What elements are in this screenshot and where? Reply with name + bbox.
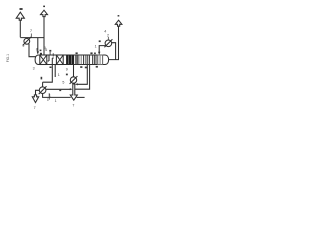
wire P3 left to down arrow [36, 90, 40, 95]
wire header between stems through P1 [20, 37, 44, 39]
label 1a above vessel right [76, 52, 78, 54]
wire line C from vessel bottom [75, 65, 90, 90]
pump P1 (circle with slash) [24, 38, 30, 44]
svg-text:1: 1 [55, 99, 57, 103]
wire P2 discharge left then down into vessel [99, 46, 105, 53]
down arrow 5 (hollow head with tall hollow stem) [70, 84, 77, 100]
svg-text:8: 8 [36, 48, 38, 52]
wire P4 down [73, 83, 75, 84]
wire P1 bottom to vessel left cap [29, 44, 36, 57]
wire from arrow 3 down to vessel right nozzle [109, 26, 119, 59]
arrow 2 (hollow up arrow) [41, 10, 48, 16]
tray box near right end [98, 55, 103, 65]
label 12 above P3 riser [41, 77, 43, 80]
label 15 below vessel [85, 67, 87, 69]
label 11 below vessel right [96, 66, 98, 68]
label speck below X-box2 [50, 67, 52, 69]
stripes group [86, 55, 90, 64]
drain tee tick [48, 93, 50, 99]
svg-text:9: 9 [66, 68, 68, 72]
svg-text:9: 9 [22, 44, 24, 48]
wire P2 suction from vessel nozzle [112, 43, 116, 60]
wire vessel bottom through P4 [73, 65, 75, 77]
svg-text:7: 7 [72, 103, 74, 107]
wire stem of arrow 2 down to vessel top [43, 17, 45, 55]
vessel (horizontal drum) [35, 55, 109, 65]
wire stem of arrow 1 [19, 20, 21, 37]
label dot above arrow 2 [43, 6, 45, 8]
svg-text:FIG.1: FIG.1 [6, 54, 10, 62]
baffle [48, 55, 49, 61]
label 24 above corner [99, 40, 101, 42]
label 14 below vessel [80, 66, 82, 68]
label tick [40, 50, 42, 52]
wire tee down into vessel top [37, 38, 39, 52]
stripes group [93, 55, 96, 64]
pump P4 (circle with slash) [70, 77, 76, 83]
label 2 leader tick [30, 34, 32, 38]
packed section medium block [75, 55, 78, 64]
svg-text:5: 5 [62, 81, 64, 85]
wire P3 top [42, 82, 44, 87]
label speck left of vessel top [94, 53, 96, 55]
svg-text:3: 3 [33, 66, 35, 70]
svg-text:1: 1 [49, 93, 51, 97]
packed section dark block [66, 55, 74, 64]
wire downcomer vessel bottom to P3 [43, 65, 53, 83]
stub line below vessel [54, 65, 56, 78]
baffle / downcomer top [52, 58, 54, 65]
svg-text:1: 1 [47, 98, 49, 102]
svg-text:1: 1 [95, 45, 97, 49]
label blob above vessel left [40, 53, 42, 55]
label dot above arrow 3 [118, 15, 120, 16]
arrowhead into vessel top right [98, 52, 100, 55]
wire line B from vessel bottom with left arrowhead [78, 65, 88, 85]
baffle line [83, 55, 85, 65]
wire P3 bottom drain [43, 93, 71, 97]
mixer element X-box 1 [40, 55, 47, 65]
down arrow 4 (hollow, bottom left) [32, 95, 38, 103]
arrowhead into vessel top [37, 51, 39, 54]
wire P3 right with arrowhead to drain stem [46, 88, 70, 90]
svg-text:7: 7 [30, 29, 32, 33]
arrow 3 (hollow up arrow, top right) [115, 20, 122, 26]
svg-text:1: 1 [58, 73, 60, 77]
mixer element X-box 2 [56, 55, 63, 65]
pump P3 (circle with slash, bottom left) [39, 87, 46, 94]
light stripes [80, 55, 82, 64]
label 1b above vessel right [90, 52, 92, 54]
svg-text:7: 7 [34, 106, 36, 110]
label 5a left of P4 [66, 74, 68, 76]
wire segment right of arrow [77, 96, 85, 98]
pump P2 (circle with slash, top right) [105, 40, 112, 47]
junction speck on recycle line [59, 90, 61, 91]
label 26 above arrow 1 [20, 8, 23, 10]
svg-text:4: 4 [104, 29, 106, 33]
label mark crossing top edge [52, 53, 54, 56]
arrow 1 (hollow up arrow, top left) [16, 12, 24, 20]
svg-text:6: 6 [45, 48, 47, 52]
label 12 above vessel [49, 50, 51, 52]
